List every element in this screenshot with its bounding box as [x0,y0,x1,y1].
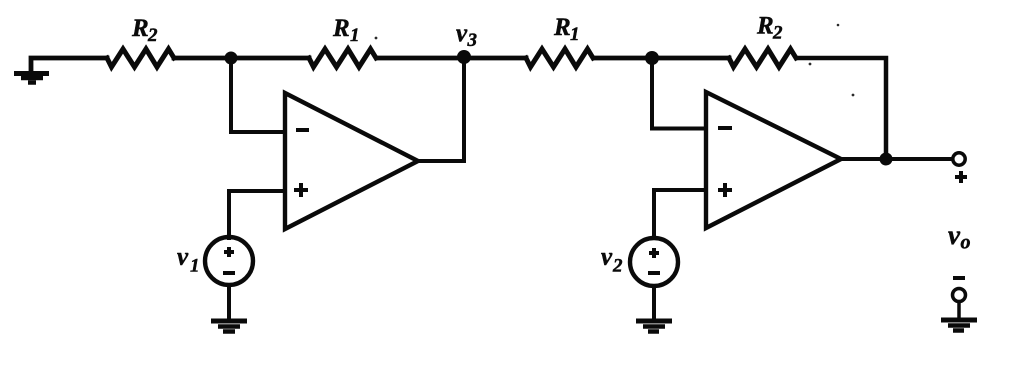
svg-text:1: 1 [350,25,360,46]
svg-text:R: R [553,14,571,41]
svg-text:v: v [948,220,961,250]
svg-text:3: 3 [467,30,478,51]
svg-text:v: v [177,244,189,271]
svg-text:2: 2 [147,25,158,46]
svg-text:v: v [456,20,468,47]
svg-text:v: v [601,244,613,271]
svg-text:2: 2 [772,23,783,44]
svg-text:o: o [961,232,971,254]
svg-text:1: 1 [190,256,200,277]
svg-text:R: R [332,15,350,42]
svg-text:2: 2 [612,256,623,277]
svg-text:R: R [756,13,774,40]
svg-text:1: 1 [570,24,580,45]
svg-text:R: R [131,15,149,42]
